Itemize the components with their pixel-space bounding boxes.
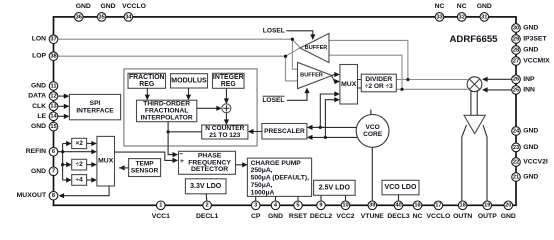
svg-text:GND: GND: [477, 3, 492, 10]
svg-text:14: 14: [50, 114, 57, 120]
svg-text:NC: NC: [457, 3, 467, 10]
svg-text:15: 15: [50, 124, 56, 130]
svg-text:VCO: VCO: [365, 124, 379, 131]
svg-text:BUFFER: BUFFER: [300, 73, 323, 79]
svg-text:24: 24: [513, 128, 520, 134]
svg-text:GND: GND: [268, 213, 283, 220]
svg-text:VCO LDO: VCO LDO: [385, 184, 417, 191]
svg-text:11: 11: [50, 83, 56, 89]
svg-text:26: 26: [513, 77, 519, 83]
svg-text:DECL3: DECL3: [387, 213, 410, 220]
svg-text:DATA: DATA: [28, 93, 46, 100]
svg-text:39: 39: [369, 203, 375, 209]
svg-text:37: 37: [50, 37, 56, 43]
svg-text:12: 12: [50, 94, 56, 100]
svg-text:3.3V LDO: 3.3V LDO: [190, 183, 222, 190]
svg-text:GND: GND: [31, 83, 46, 90]
svg-text:13: 13: [50, 104, 56, 110]
svg-text:LOSEL: LOSEL: [262, 97, 284, 104]
svg-text:1: 1: [159, 203, 162, 209]
svg-text:IP3SET: IP3SET: [523, 36, 547, 43]
svg-text:NC: NC: [435, 3, 445, 10]
svg-text:−: −: [179, 151, 183, 158]
svg-text:32: 32: [459, 14, 465, 20]
svg-text:28: 28: [513, 47, 519, 53]
svg-text:÷4: ÷4: [76, 176, 84, 183]
svg-text:RSET: RSET: [289, 213, 308, 220]
svg-text:34: 34: [125, 14, 132, 20]
svg-text:GND: GND: [523, 25, 538, 32]
svg-text:1000μA: 1000μA: [251, 189, 275, 196]
svg-text:LE: LE: [37, 113, 46, 120]
svg-text:DECL2: DECL2: [310, 213, 333, 220]
svg-text:VCC1: VCC1: [152, 213, 170, 220]
svg-text:REFIN: REFIN: [26, 148, 46, 155]
svg-text:30: 30: [513, 25, 519, 31]
svg-text:5: 5: [296, 203, 299, 209]
svg-text:GND: GND: [523, 47, 538, 54]
svg-text:NC: NC: [413, 213, 423, 220]
svg-text:17: 17: [435, 203, 441, 209]
svg-text:÷2: ÷2: [76, 161, 84, 168]
svg-text:GND: GND: [501, 213, 516, 220]
svg-text:31: 31: [481, 14, 487, 20]
svg-text:250μA,: 250μA,: [251, 167, 273, 174]
svg-text:750μA,: 750μA,: [251, 182, 273, 189]
svg-text:VCC2: VCC2: [336, 213, 354, 220]
svg-text:INN: INN: [523, 86, 535, 93]
svg-text:GND: GND: [31, 123, 46, 130]
svg-text:27: 27: [513, 58, 519, 64]
svg-text:18: 18: [460, 203, 466, 209]
svg-text:7: 7: [52, 169, 55, 175]
svg-text:VCCV2I: VCCV2I: [523, 159, 548, 166]
svg-text:OUTP: OUTP: [478, 213, 497, 220]
svg-text:21: 21: [513, 174, 519, 180]
svg-text:OUTN: OUTN: [453, 213, 472, 220]
svg-text:500μA (DEFAULT),: 500μA (DEFAULT),: [251, 175, 309, 182]
svg-text:ADRF6655: ADRF6655: [450, 34, 499, 45]
svg-text:CP: CP: [251, 213, 261, 220]
svg-text:INTERFACE: INTERFACE: [76, 107, 114, 114]
svg-text:29: 29: [513, 36, 519, 42]
svg-text:VCCLO: VCCLO: [122, 3, 146, 10]
svg-text:INP: INP: [523, 76, 535, 83]
svg-text:20: 20: [505, 203, 511, 209]
svg-text:DETECTOR: DETECTOR: [191, 166, 228, 173]
svg-text:40: 40: [395, 203, 401, 209]
svg-text:INTERPOLATOR: INTERPOLATOR: [141, 114, 193, 121]
svg-text:REG: REG: [139, 81, 154, 88]
svg-text:×2: ×2: [75, 140, 83, 147]
svg-text:÷2 OR ÷3: ÷2 OR ÷3: [365, 83, 393, 90]
svg-text:6: 6: [52, 149, 55, 155]
svg-text:MUX: MUX: [341, 81, 357, 88]
svg-text:VTUNE: VTUNE: [361, 213, 385, 220]
svg-text:SENSOR: SENSOR: [131, 168, 159, 175]
svg-text:2: 2: [206, 203, 209, 209]
svg-text:LOP: LOP: [32, 53, 46, 60]
svg-text:CORE: CORE: [363, 131, 383, 138]
svg-text:VCCLO: VCCLO: [427, 213, 451, 220]
svg-text:GND: GND: [523, 174, 538, 181]
svg-text:SPI: SPI: [90, 100, 101, 107]
svg-text:CHARGE PUMP: CHARGE PUMP: [251, 160, 302, 167]
svg-text:PRESCALER: PRESCALER: [264, 128, 305, 135]
svg-text:DECL1: DECL1: [196, 213, 219, 220]
svg-text:3: 3: [254, 203, 257, 209]
svg-text:MUXOUT: MUXOUT: [17, 192, 47, 199]
svg-text:GND: GND: [100, 3, 115, 10]
svg-text:CLK: CLK: [32, 103, 46, 110]
svg-text:LOSEL: LOSEL: [263, 27, 285, 34]
svg-text:BUFFER: BUFFER: [305, 45, 328, 51]
svg-text:9: 9: [319, 203, 322, 209]
svg-text:GND: GND: [523, 128, 538, 135]
svg-text:GND: GND: [31, 168, 46, 175]
svg-text:38: 38: [50, 54, 56, 60]
svg-text:GND: GND: [523, 144, 538, 151]
svg-text:8: 8: [52, 193, 55, 199]
svg-text:19: 19: [484, 203, 490, 209]
svg-text:MODULUS: MODULUS: [171, 77, 207, 84]
svg-text:10: 10: [342, 203, 348, 209]
svg-text:GND: GND: [76, 3, 91, 10]
svg-text:22: 22: [513, 159, 519, 165]
svg-text:16: 16: [414, 203, 420, 209]
svg-text:21 TO 123: 21 TO 123: [209, 132, 240, 139]
svg-text:35: 35: [98, 14, 104, 20]
svg-text:36: 36: [76, 14, 82, 20]
svg-text:+: +: [180, 158, 184, 165]
svg-text:MUX: MUX: [98, 158, 114, 165]
svg-text:VCCMIX: VCCMIX: [523, 58, 550, 65]
svg-text:LON: LON: [32, 36, 46, 43]
svg-text:23: 23: [513, 145, 519, 151]
svg-text:33: 33: [436, 14, 442, 20]
svg-text:25: 25: [513, 87, 519, 93]
svg-text:REG: REG: [221, 81, 236, 88]
svg-text:2.5V LDO: 2.5V LDO: [319, 184, 351, 191]
